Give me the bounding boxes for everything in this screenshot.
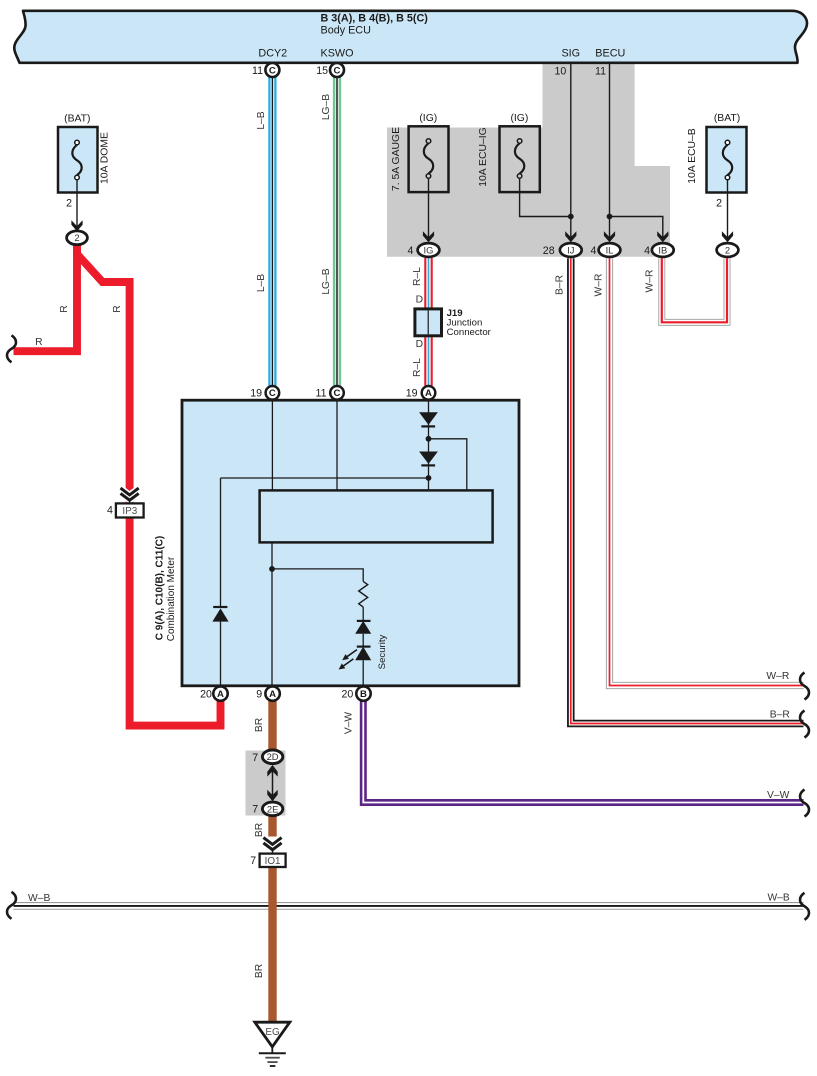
gray shade behind GAUGE/ECU-IG fuses and SIG/BECU drop [387,63,670,257]
wire V-W (meter 20B down and right to edge) [363,700,803,803]
junction node on BECU wire [607,214,613,220]
svg-text:20: 20 [342,688,354,700]
svg-text:D: D [416,339,423,350]
svg-text:Connector: Connector [447,327,492,338]
junction connector J19 [415,309,442,336]
node after D2 [426,475,432,481]
svg-text:7. 5A GAUGE: 7. 5A GAUGE [391,127,402,191]
ground EG symbol [255,1022,290,1066]
connector circle DCY2 11 C [265,63,279,77]
svg-text:L–B: L–B [256,274,267,292]
fuse 7.5A GAUGE element [424,139,433,179]
arrow into IB [657,231,668,242]
wire SIG drop [570,64,572,241]
svg-text:(IG): (IG) [510,113,528,124]
connector IO1 box [260,854,286,867]
svg-text:R–L: R–L [412,267,423,286]
combination meter C9/C10/C11 body [182,400,519,686]
wire left leg down to diode D3 [220,478,222,608]
connector ellipse IJ [560,243,582,257]
svg-text:11: 11 [252,65,263,77]
svg-text:(IG): (IG) [419,113,437,124]
diode D1 [419,412,438,426]
svg-text:4: 4 [590,245,596,257]
svg-text:C 9(A), C10(B), C11(C): C 9(A), C10(B), C11(C) [155,536,166,640]
svg-text:7: 7 [250,855,256,867]
meter pin 9 A [265,686,279,700]
connector ellipse IB [652,243,674,257]
connector ellipse IG [418,243,440,257]
svg-text:2E: 2E [267,803,278,814]
svg-text:4: 4 [407,245,413,257]
wire LG-B (KSWO to meter 11C) [334,77,340,386]
fuse 10A DOME box [58,127,98,193]
fuse 10A ECU-B box [707,127,747,193]
svg-text:10A DOME: 10A DOME [100,132,111,184]
wire inside meter from 11C [336,399,338,490]
arrow into IJ [565,231,576,242]
wire W-R loop (IB to fuse ECU-B connector 2) [662,258,727,322]
svg-text:W–R: W–R [645,270,656,293]
wire R branch to left edge [14,243,78,351]
node on 9A wire [269,566,275,572]
svg-text:LG–B: LG–B [321,94,332,120]
svg-text:R: R [112,305,123,312]
wire node to resistor [272,569,363,582]
svg-text:2: 2 [725,244,730,255]
arrows between 2D and 2E [267,765,277,802]
svg-text:Security: Security [377,634,388,669]
connector ellipse 2 (fuse DOME) [67,231,88,245]
svg-text:A: A [269,689,276,700]
wire BECU drop [609,64,611,241]
connector 2D ellipse [262,750,282,764]
node after D1 [426,436,432,442]
svg-text:IL: IL [606,244,614,255]
meter pin 19 C [266,386,280,400]
svg-text:B: B [360,689,367,700]
svg-text:W–B: W–B [28,893,50,904]
fuse 10A ECU-B element [723,140,732,193]
svg-text:Body ECU: Body ECU [321,25,371,37]
svg-text:10: 10 [555,65,567,77]
connector circle KSWO 15 C [330,63,344,77]
wire R-L (IG connector to meter 19A) [425,258,431,386]
svg-text:19: 19 [406,388,418,400]
LED emission arrow 1 [342,650,357,661]
svg-text:IJ: IJ [567,244,574,255]
svg-text:C: C [269,65,276,76]
wire W-R (IL down and right to edge) [610,258,804,685]
svg-text:L–B: L–B [256,111,267,129]
connector ellipse 2 (fuse ECU-B) [717,243,739,257]
svg-text:11: 11 [595,65,606,77]
svg-text:A: A [425,388,432,399]
wire D2 node to left leg [221,477,429,479]
wire inside meter from 19C [271,399,273,490]
svg-text:4: 4 [644,245,650,257]
wire BR (IO1 to ground EG) [268,853,276,1022]
meter pin 19 A [422,386,436,400]
inner control unit box [260,490,493,542]
svg-text:D: D [416,295,423,306]
connector ellipse IL [599,243,621,257]
wire BR (meter 9A to 2D) [268,700,276,751]
svg-text:IP3: IP3 [122,506,137,517]
svg-text:B 3(A), B 4(B), B 5(C): B 3(A), B 4(B), B 5(C) [321,13,429,25]
chevron pass-through above IP3 [122,489,138,503]
bus banner Body ECU [14,11,807,63]
fuse 10A ECU-IG element [515,139,524,179]
svg-text:2: 2 [716,197,722,209]
svg-text:19: 19 [250,388,262,400]
svg-text:V–W: V–W [344,712,355,735]
wire fuse DOME pin 2 [76,180,78,230]
svg-text:R–L: R–L [412,358,423,377]
junction node on SIG wire [568,214,574,220]
svg-text:20: 20 [200,688,212,700]
svg-text:C: C [334,388,341,399]
svg-text:7: 7 [252,803,258,815]
wire fuse ECU-IG to SIG node [520,178,571,216]
LED emission arrow 2 [339,659,354,670]
svg-text:R: R [35,337,42,348]
svg-text:9: 9 [256,688,262,700]
svg-text:A: A [217,689,224,700]
svg-text:Combination Meter: Combination Meter [166,556,177,641]
meter pin 20 B [356,686,370,700]
LED security diode 2 [355,647,371,686]
svg-text:2: 2 [66,197,72,209]
connector IP3 box [116,503,144,517]
wire fuse ECU-B pin 2 [727,180,729,241]
svg-text:2D: 2D [267,751,279,762]
break mark right (W-R wire) [800,673,809,700]
break mark right (V-W wire) [800,790,809,817]
svg-text:W–R: W–R [593,274,604,297]
svg-text:BECU: BECU [595,47,625,59]
fuse 10A ECU-IG box [500,126,540,192]
svg-text:DCY2: DCY2 [258,47,287,59]
svg-text:R: R [59,305,70,312]
svg-text:BR: BR [254,823,265,837]
wire branch D1 node to inner unit [429,439,467,491]
svg-text:28: 28 [543,245,555,257]
fuse 10A DOME element [72,140,81,193]
fuse 7.5A GAUGE box [409,126,449,192]
diode D3 [212,607,228,686]
connector 2E ellipse [262,802,282,816]
arrow into connector 2 (fuse DOME) [71,220,82,231]
svg-text:10A ECU–IG: 10A ECU–IG [478,127,489,187]
svg-text:W–B: W–B [767,892,789,903]
meter pin 11 C [330,386,344,400]
break mark left (R wire) [7,335,16,362]
meter pin 20 A [213,686,227,700]
svg-text:10A ECU–B: 10A ECU–B [687,128,698,184]
svg-text:KSWO: KSWO [321,47,354,59]
svg-text:11: 11 [316,388,327,400]
wire BR (2E to IO1) [268,816,276,837]
wire R main (fuse DOME down through IP3 to meter 20A) [77,243,221,726]
break mark right (W-B wire) [800,893,809,920]
svg-text:LG–B: LG–B [321,268,332,294]
svg-text:IG: IG [424,244,434,255]
wire L-B (DCY2 to meter 19C) [269,77,275,386]
svg-text:(BAT): (BAT) [714,113,740,124]
svg-text:4: 4 [107,504,113,516]
wire inside meter from 19A through diodes [428,399,430,490]
wire BECU branch to IB [610,217,663,242]
wire resistor to LED [362,607,364,621]
wire fuse GAUGE to IG [428,178,430,241]
svg-text:2: 2 [74,232,79,243]
svg-text:SIG: SIG [561,47,580,59]
wire inner unit to 9A [271,542,273,686]
break mark left (W-B wire) [7,892,16,919]
svg-text:V–W: V–W [767,790,790,801]
svg-text:15: 15 [316,65,328,77]
svg-text:C: C [269,388,276,399]
gray shade behind connectors 2D/2E [246,751,286,816]
svg-text:BR: BR [254,718,265,732]
svg-text:C: C [334,65,341,76]
break mark right (B-R wire) [800,711,809,738]
svg-text:BR: BR [254,964,265,978]
svg-text:W–R: W–R [766,671,789,682]
diode D2 [419,452,438,466]
arrow into 2 (fuse ECU-B) [722,231,733,242]
wire W-B horizontal [14,902,804,910]
arrow into IL [604,231,615,242]
LED security diode 1 [355,621,371,647]
wire B-R (IJ down and right to edge) [571,258,804,723]
svg-text:B–R: B–R [555,275,566,295]
svg-text:(BAT): (BAT) [64,114,90,125]
svg-text:EG: EG [265,1027,279,1038]
chevron pass-through above IO1 [265,839,281,854]
svg-text:IB: IB [658,244,667,255]
resistor [359,581,368,607]
svg-text:7: 7 [252,752,258,764]
svg-text:B–R: B–R [770,709,790,720]
arrow into IG [423,231,434,242]
svg-text:IO1: IO1 [265,856,281,867]
